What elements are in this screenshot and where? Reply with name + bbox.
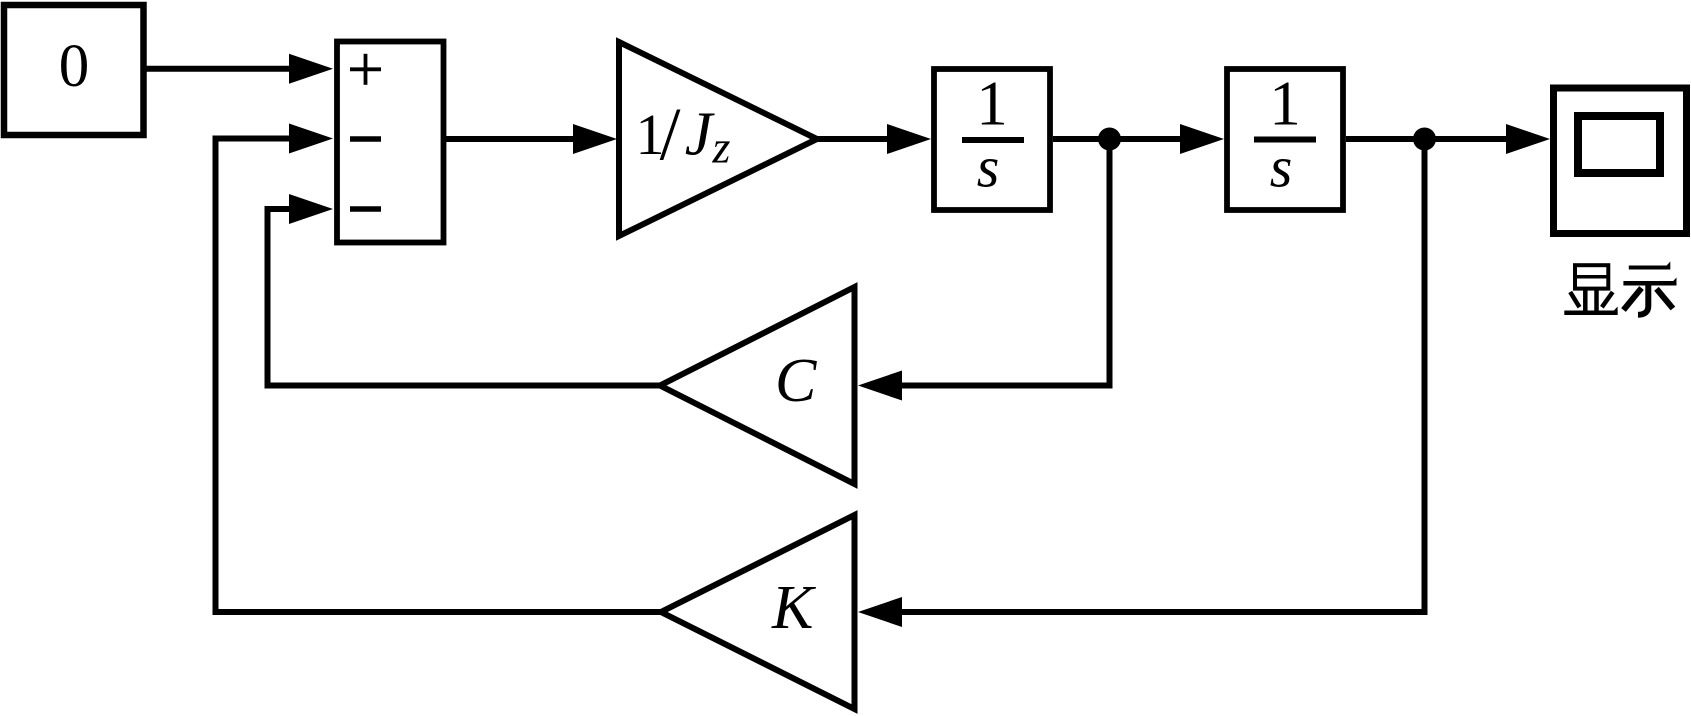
integrator block 1 (1/s) xyxy=(934,69,1050,211)
svg-text:1: 1 xyxy=(1269,69,1301,139)
svg-text:J: J xyxy=(685,101,715,169)
wire integrator1 to integrator2 xyxy=(1053,136,1180,142)
arrowhead into scope xyxy=(1506,124,1550,154)
示: left diagonal xyxy=(1624,288,1642,310)
svg-text:z: z xyxy=(712,122,731,173)
gain triangle C (points left) xyxy=(660,287,855,484)
junction dot node 1 xyxy=(1098,128,1121,151)
arrowhead into sum middle minus xyxy=(289,124,333,154)
svg-text:s: s xyxy=(977,135,1000,200)
junction dot node 2 xyxy=(1413,128,1436,151)
label 显示 (drawn glyphs) xyxy=(1564,262,1676,315)
gain triangle 1/Jz xyxy=(619,42,817,236)
wire from node1 down and left into C gain xyxy=(900,139,1110,386)
示: vertical with hook xyxy=(1638,285,1648,315)
wire C output left, up, into sum minus1 xyxy=(268,209,661,386)
显: side dots xyxy=(1570,292,1579,307)
wire sum output to gain xyxy=(443,136,575,142)
scope block xyxy=(1554,88,1687,234)
wire K output left, up, into sum minus middle xyxy=(216,139,662,613)
arrowhead into C gain xyxy=(858,371,902,401)
svg-text:K: K xyxy=(771,574,817,642)
svg-text:s: s xyxy=(1270,135,1293,200)
arrowhead into integrator 2 xyxy=(1180,124,1224,154)
constant block 0 xyxy=(4,5,144,135)
示: second horizontal xyxy=(1623,281,1676,286)
plus sign xyxy=(350,67,381,71)
integrator block 2 (1/s) xyxy=(1227,69,1343,211)
svg-text:0: 0 xyxy=(59,33,90,100)
示: top horizontal xyxy=(1629,266,1670,270)
示: right diagonal xyxy=(1657,289,1673,309)
arrowhead into integrator 1 xyxy=(887,124,931,154)
显: bottom horizontal xyxy=(1564,311,1617,316)
wire integrator2 to scope xyxy=(1346,136,1508,142)
wire from node2 down and left into K gain xyxy=(900,139,1425,612)
arrowhead into sum bottom minus xyxy=(289,194,333,224)
wire gain to integrator 1 xyxy=(817,136,889,142)
minus sign 1 xyxy=(350,136,381,142)
arrowhead into sum + xyxy=(289,54,333,84)
arrowhead into gain xyxy=(573,124,617,154)
svg-text:/: / xyxy=(660,94,681,177)
wire 0 to sum + input xyxy=(145,66,291,72)
sum block xyxy=(337,42,444,243)
svg-text:C: C xyxy=(775,347,817,415)
minus sign 2 xyxy=(350,206,381,212)
显: two verticals xyxy=(1583,289,1588,311)
显: 日 box xyxy=(1575,265,1608,288)
arrowhead into K gain xyxy=(858,597,902,627)
gain triangle K (points left) xyxy=(661,515,855,709)
svg-text:1: 1 xyxy=(976,69,1008,139)
